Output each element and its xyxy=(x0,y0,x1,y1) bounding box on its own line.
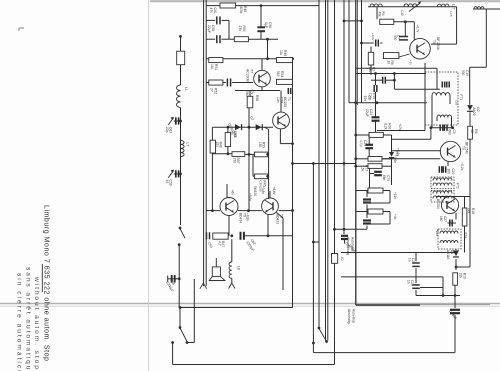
svg-text:560: 560 xyxy=(245,91,249,97)
svg-text:22k: 22k xyxy=(458,273,462,279)
svg-text:+0,8v: +0,8v xyxy=(261,186,265,194)
svg-text:1,5k: 1,5k xyxy=(360,165,364,172)
svg-text:BD433: BD433 xyxy=(276,214,280,224)
svg-text:10n: 10n xyxy=(363,96,367,102)
svg-text:sin cierre automático: sin cierre automático xyxy=(16,273,23,371)
svg-text:+4v: +4v xyxy=(393,214,397,220)
svg-text:11k: 11k xyxy=(279,50,283,56)
svg-text:500: 500 xyxy=(461,70,465,76)
svg-text:FT1: FT1 xyxy=(459,94,463,100)
svg-text:470: 470 xyxy=(209,8,213,14)
svg-text:14n: 14n xyxy=(276,97,280,103)
svg-text:680: 680 xyxy=(448,130,452,136)
svg-text:+0,7v: +0,7v xyxy=(416,25,420,33)
svg-text:Abschaltg.: Abschaltg. xyxy=(347,309,351,324)
svg-text:22p: 22p xyxy=(165,127,169,133)
svg-text:5W150: 5W150 xyxy=(253,186,257,196)
svg-text:L15: L15 xyxy=(449,12,453,17)
svg-text:sans arrêt automatique: sans arrêt automatique xyxy=(25,267,32,371)
svg-text:27: 27 xyxy=(209,88,213,92)
svg-text:without autom. stop: without autom. stop xyxy=(33,276,40,371)
svg-text:4,7µ: 4,7µ xyxy=(359,140,363,147)
svg-text:Abschaltung: Abschaltung xyxy=(346,237,350,255)
svg-text:33: 33 xyxy=(230,131,234,135)
svg-text:R56: R56 xyxy=(255,95,259,101)
svg-text:22k: 22k xyxy=(467,208,471,214)
svg-text:+14v: +14v xyxy=(435,229,439,236)
svg-text:AA29: AA29 xyxy=(472,107,476,115)
svg-text:AA116: AA116 xyxy=(446,250,450,260)
svg-text:L16: L16 xyxy=(455,100,459,105)
svg-text:AC230B: AC230B xyxy=(246,69,250,82)
svg-text:68n: 68n xyxy=(382,175,386,181)
svg-text:+17v: +17v xyxy=(398,123,402,130)
svg-text:BF254: BF254 xyxy=(436,199,440,209)
svg-text:+6v: +6v xyxy=(231,190,235,196)
svg-text:L12: L12 xyxy=(400,11,404,17)
svg-text:+7v: +7v xyxy=(250,89,254,95)
svg-text:FT2: FT2 xyxy=(456,183,460,189)
svg-text:45: 45 xyxy=(165,180,169,184)
svg-text:L1: L1 xyxy=(184,87,188,91)
svg-text:98: 98 xyxy=(470,129,474,133)
svg-text:L8: L8 xyxy=(237,266,241,270)
svg-text:1n: 1n xyxy=(407,258,411,262)
svg-text:330: 330 xyxy=(393,35,397,41)
svg-text:+0,6v: +0,6v xyxy=(371,33,375,41)
svg-text:160: 160 xyxy=(439,216,443,222)
svg-text:150: 150 xyxy=(258,142,262,148)
svg-text:+2v: +2v xyxy=(409,60,413,65)
svg-text:BD434: BD434 xyxy=(239,213,243,223)
svg-text:40: 40 xyxy=(340,257,344,261)
svg-text:+6,8v: +6,8v xyxy=(246,213,250,221)
svg-text:+8,6v: +8,6v xyxy=(248,193,252,201)
svg-text:T3: T3 xyxy=(461,146,465,150)
svg-text:Limburg Mono 7 635 222 ohne au: Limburg Mono 7 635 222 ohne autom. Stop xyxy=(43,205,50,362)
svg-text:150: 150 xyxy=(233,158,237,164)
svg-text:10: 10 xyxy=(386,61,390,65)
svg-text:L17: L17 xyxy=(452,4,456,10)
svg-text:+0,2v: +0,2v xyxy=(460,162,464,170)
svg-text:160: 160 xyxy=(447,169,451,175)
svg-text:560: 560 xyxy=(276,71,280,77)
svg-text:T5: T5 xyxy=(432,40,436,44)
svg-text:3µF: 3µF xyxy=(264,22,268,28)
svg-text:1n: 1n xyxy=(406,280,410,284)
svg-text:+8,6v: +8,6v xyxy=(272,187,276,195)
svg-text:22µF: 22µF xyxy=(365,109,369,117)
svg-text:27k: 27k xyxy=(238,26,242,32)
svg-text:220: 220 xyxy=(215,142,219,148)
svg-text:8,2k: 8,2k xyxy=(383,123,387,130)
svg-text:+11v: +11v xyxy=(393,192,397,199)
svg-text:22µF: 22µF xyxy=(207,25,211,33)
svg-text:L7: L7 xyxy=(186,143,190,147)
svg-text:400k: 400k xyxy=(239,6,243,14)
svg-text:11k: 11k xyxy=(210,64,214,70)
svg-text:40k: 40k xyxy=(377,12,381,18)
svg-text:4,7: 4,7 xyxy=(217,241,221,246)
svg-text:FT4: FT4 xyxy=(464,233,468,239)
